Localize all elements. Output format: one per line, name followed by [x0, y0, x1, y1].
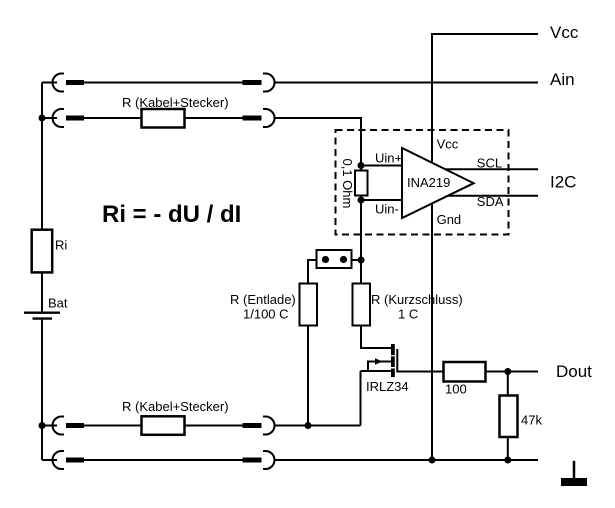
svg-text:R (Entlade): R (Entlade) — [230, 292, 296, 307]
wire: jumper left lead to R Entlade — [308, 260, 317, 284]
resistor R (Kabel+Stecker) bottom, row 1 — [142, 416, 185, 435]
wire: jumper right lead to shunt net — [352, 259, 362, 261]
wire: Vcc bus from top terminal down to INA219 Vcc pin — [432, 34, 538, 163]
wire: 47k top lead — [507, 372, 509, 396]
connector pin bar row 1 left — [66, 423, 84, 428]
connector socket arc row B left — [53, 109, 65, 127]
connector socket arc row 2 right — [263, 451, 275, 469]
wire: R Entlade bottom lead to row 1 — [307, 326, 309, 426]
wire: MOSFET body tie to source — [368, 362, 391, 372]
svg-text:Gnd: Gnd — [437, 212, 462, 227]
connector socket arc row A left — [53, 74, 65, 92]
svg-text:IRLZ34: IRLZ34 — [366, 379, 409, 394]
svg-text:Vcc: Vcc — [550, 23, 579, 42]
junction: shunt bottom / Uin- — [358, 197, 365, 204]
wire: MOSFET source down to row 1 — [360, 371, 362, 426]
transistor Q1 IRLZ34 body contact bar — [391, 356, 395, 367]
wire: R Kurzschluss bottom lead to MOSFET drain — [361, 326, 391, 349]
junction: 47k / row 2 — [504, 457, 511, 464]
svg-text:Ri = - dU / dI: Ri = - dU / dI — [102, 201, 241, 228]
battery Bat plate long (+) — [24, 312, 60, 314]
connector socket arc row 1 right — [263, 417, 275, 435]
wire: row B resistor to connector — [185, 117, 243, 119]
svg-text:Dout: Dout — [556, 362, 592, 381]
resistor R (Kabel+Stecker) top, row B — [142, 109, 185, 128]
connector socket arc row A right — [263, 74, 275, 92]
wire: row 2 connector to ground bus right — [274, 459, 538, 461]
svg-text:1/100 C: 1/100 C — [243, 307, 289, 322]
wire: row 1 stub from bus to connector — [42, 425, 57, 427]
wire: row 2 between connector pins — [84, 459, 243, 461]
wire: row B stub from bus to connector — [42, 117, 57, 119]
op-amp symbol U1 INA219 — [402, 148, 474, 218]
battery Bat plate short (-) — [33, 317, 53, 319]
wire: SDA from INA219 to I2C — [440, 195, 538, 197]
svg-text:Bat: Bat — [48, 296, 68, 311]
connector pin bar row 2 right — [243, 458, 262, 463]
connector pin bar row 2 left — [66, 458, 84, 463]
wire: Gnd bus from INA219 Gnd pin down to ground row — [431, 204, 433, 461]
svg-text:47k: 47k — [521, 413, 542, 428]
svg-text:Uin+: Uin+ — [375, 151, 402, 166]
wire: 47k bottom lead — [507, 437, 509, 460]
wire: row B connector to resistor — [84, 117, 142, 119]
svg-text:R (Kabel+Stecker): R (Kabel+Stecker) — [122, 95, 229, 110]
junction: Vcc bus / row 2 — [429, 457, 436, 464]
ground symbol stub — [573, 461, 576, 479]
junction: R Entlade / row 1 — [305, 422, 312, 429]
jumper pin dot right — [340, 256, 347, 263]
wire: MOSFET source lead left — [361, 370, 392, 372]
svg-text:I2C: I2C — [550, 173, 576, 192]
ground symbol bar — [561, 478, 587, 486]
dashed module boundary INA219 board — [336, 130, 509, 235]
svg-text:100: 100 — [445, 382, 467, 397]
svg-text:Uin-: Uin- — [375, 202, 399, 217]
junction: bus / row B — [39, 115, 46, 122]
wire: 100 ohm to Dout — [486, 371, 539, 373]
svg-text:SDA: SDA — [477, 194, 504, 209]
transistor Q1 IRLZ34 source contact bar — [391, 369, 395, 378]
junction: jumper / shunt net — [358, 257, 365, 264]
wire: row 1 connector to MOSFET source corner — [274, 425, 361, 427]
svg-text:Ri: Ri — [55, 238, 67, 253]
resistor R (Kurzschluss) — [353, 284, 371, 326]
svg-text:Ain: Ain — [550, 70, 575, 89]
svg-text:R (Kabel+Stecker): R (Kabel+Stecker) — [122, 399, 229, 414]
wire: Uin- from shunt bottom to INA219 — [361, 199, 402, 201]
connector socket arc row 2 left — [53, 451, 65, 469]
resistor Ri (battery internal) — [32, 230, 53, 273]
svg-text:1 C: 1 C — [398, 307, 418, 322]
svg-text:0,1 Ohm: 0,1 Ohm — [340, 159, 355, 209]
wire: row A between connector pins — [84, 82, 243, 84]
wire: shunt bottom down to R Kurzschluss — [360, 196, 362, 284]
junction: Dout node / 47k — [504, 368, 511, 375]
wire: row A to Ain terminal — [274, 82, 538, 84]
wire: row A stub from bus to connector — [42, 82, 57, 84]
svg-text:INA219: INA219 — [407, 175, 450, 190]
transistor Q1 IRLZ34 drain contact bar — [391, 344, 395, 355]
wire: row 1 connector to resistor — [84, 425, 142, 427]
wire: left bus upper segment (battery + to rows A/B) — [41, 83, 43, 312]
connector pin bar row B left — [66, 116, 84, 121]
connector pin bar row 1 right — [243, 423, 262, 428]
connector pin bar row A left — [66, 80, 84, 85]
junction: shunt top / Uin+ — [358, 162, 365, 169]
connector jumper block J1 — [317, 250, 352, 268]
svg-text:SCL: SCL — [477, 156, 502, 171]
svg-text:Vcc: Vcc — [437, 137, 459, 152]
wire: SCL from INA219 to I2C — [440, 168, 538, 170]
wire: left bus lower segment (battery - to bottom rows) — [41, 320, 43, 460]
resistor 100 — [444, 362, 486, 382]
svg-text:R (Kurzschluss): R (Kurzschluss) — [371, 292, 463, 307]
connector pin bar row B right — [243, 116, 262, 121]
resistor shunt 0,1 Ohm — [355, 171, 368, 196]
wire: row 2 stub from bus to connector — [42, 459, 57, 461]
junction: bus / row 1 — [39, 422, 46, 429]
jumper pin dot left — [322, 256, 329, 263]
wire: Uin+ from shunt top to INA219 — [361, 165, 402, 167]
resistor 47k — [500, 396, 518, 438]
wire: row B to shunt top (corner down) — [274, 118, 361, 171]
resistor R (Entlade) — [300, 284, 318, 326]
transistor Q1 IRLZ34 body arrow — [375, 358, 383, 365]
wire: MOSFET gate lead to 100 ohm — [397, 349, 443, 372]
wire: row 1 resistor to connector — [185, 425, 243, 427]
connector socket arc row 1 left — [53, 417, 65, 435]
connector pin bar row A right — [243, 80, 262, 85]
connector socket arc row B right — [263, 109, 275, 127]
